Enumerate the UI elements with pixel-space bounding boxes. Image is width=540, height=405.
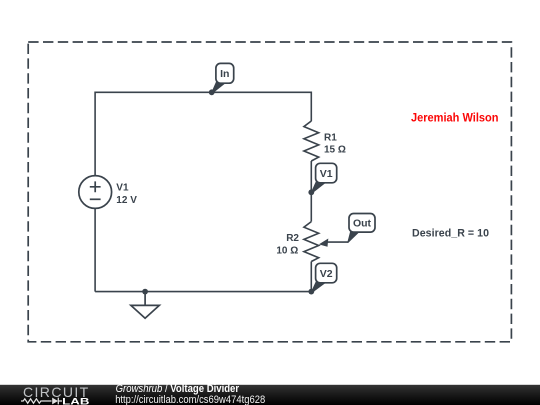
junction dot at V2: [308, 289, 314, 295]
svg-text:Jeremiah Wilson: Jeremiah Wilson: [411, 110, 499, 124]
footer bar: [0, 385, 540, 405]
wire right upper: [310, 92, 312, 122]
svg-text:V1: V1: [320, 168, 333, 180]
svg-text:LAB: LAB: [62, 397, 90, 405]
svg-text:15 Ω: 15 Ω: [324, 145, 346, 156]
node flag Out: [347, 214, 375, 243]
svg-text:Out: Out: [353, 218, 372, 230]
wire left upper: [94, 92, 96, 176]
svg-text:V2: V2: [320, 268, 333, 280]
svg-text:R2: R2: [286, 233, 299, 244]
voltage source V1: [79, 176, 112, 209]
junction dot at V1: [308, 189, 314, 195]
node flag V2: [311, 263, 337, 293]
svg-text:http://circuitlab.com/cs69w474: http://circuitlab.com/cs69w474tg628: [115, 394, 265, 405]
CircuitLab logo: [21, 384, 90, 405]
svg-text:10 Ω: 10 Ω: [276, 245, 298, 256]
node flag V1: [311, 163, 337, 193]
junction dot at ground: [142, 289, 148, 295]
svg-text:R1: R1: [324, 132, 337, 143]
ground: [131, 292, 159, 319]
V1 value labels: [116, 183, 137, 206]
svg-text:12 V: 12 V: [116, 195, 137, 206]
R2 value labels: [276, 233, 299, 257]
wire bottom horizontal: [95, 291, 311, 293]
R2 wiper arrow: [319, 239, 349, 247]
node flag In: [211, 63, 234, 93]
junction dot at In: [209, 89, 215, 95]
svg-text:Desired_R = 10: Desired_R = 10: [412, 228, 489, 240]
svg-text:V1: V1: [116, 183, 129, 194]
wire right lower: [310, 262, 312, 292]
resistor R1: [304, 121, 319, 161]
wire right middle: [310, 161, 312, 222]
wire left lower: [94, 208, 96, 291]
wire top horizontal: [95, 91, 311, 93]
R1 value labels: [324, 132, 346, 155]
svg-text:In: In: [220, 68, 229, 80]
potentiometer R2: [304, 222, 319, 262]
